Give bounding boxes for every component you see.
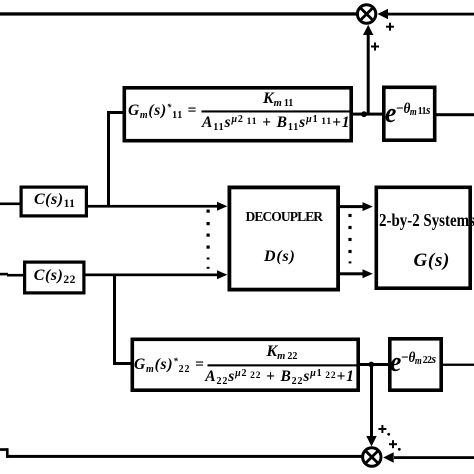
arrowhead into S2 right xyxy=(383,452,394,462)
wire branch vertical to Gm22 xyxy=(113,274,116,365)
arrowhead into decoupler input 2 xyxy=(217,270,227,279)
block C11 box xyxy=(21,187,86,216)
label C11 text xyxy=(34,192,75,208)
plus label S1 right input xyxy=(386,23,394,31)
wire input to C11 xyxy=(0,203,20,206)
plus label S2 right input xyxy=(389,440,397,448)
block G box (2-by-2 systems) xyxy=(376,187,470,288)
wire Gm11 to e11 xyxy=(353,113,382,116)
junction dot node top xyxy=(361,111,367,117)
summing junction S1 (top) xyxy=(357,5,375,23)
label Gm11 numerator xyxy=(263,91,293,107)
dotted line between decoupler outputs xyxy=(348,214,351,264)
wire top feedback line xyxy=(0,12,357,15)
plus label S1 bottom input xyxy=(371,43,379,51)
wire C11 to decoupler xyxy=(88,205,218,208)
wire bottom feedback line xyxy=(0,448,363,458)
arrowhead into decoupler input 1 xyxy=(217,202,227,211)
block e11 box xyxy=(384,87,435,140)
label Gm22 denominator xyxy=(205,369,354,385)
label Gm22 left part xyxy=(134,357,205,373)
junction dot node bottom xyxy=(368,362,374,368)
label Gm11 denominator xyxy=(202,115,350,131)
fraction bar Gm22 xyxy=(208,364,357,366)
label decoupler title xyxy=(246,210,323,224)
summing junction S2 (bottom) xyxy=(363,448,381,466)
label Gm11 left part xyxy=(128,103,197,119)
block C22 box xyxy=(25,262,84,293)
dotted line between controller outputs xyxy=(207,210,210,269)
wire vertical into S2 from model output xyxy=(370,365,373,439)
wire decoupler to G output 1 xyxy=(339,205,365,208)
wire vertical into S1 from model output xyxy=(367,29,370,114)
fraction bar Gm11 xyxy=(202,110,351,112)
plus label S2 top input xyxy=(378,425,386,433)
label e22 formula xyxy=(390,348,436,377)
wire stub into Gm11 xyxy=(107,111,123,114)
arrowhead into G input 2 xyxy=(363,269,373,278)
label decoupler D(s) xyxy=(264,249,296,265)
wire S2 right input xyxy=(394,456,474,459)
wire top right input xyxy=(385,13,474,16)
wire C22 to decoupler xyxy=(86,274,218,277)
label G G(s) xyxy=(414,251,451,270)
arrowhead into G input 1 xyxy=(363,202,373,211)
arrowhead into S1 right xyxy=(378,9,389,19)
wire decoupler to G output 2 xyxy=(339,272,365,275)
arrowhead into S1 bottom xyxy=(363,25,373,35)
block Gm11 box xyxy=(124,88,351,141)
block decoupler box xyxy=(229,187,338,289)
wire e11 output to right edge xyxy=(437,113,474,116)
wire input to C22 xyxy=(0,273,23,277)
label e11 formula xyxy=(385,99,430,128)
wire stub into Gm22 xyxy=(113,362,131,365)
label G title xyxy=(379,211,474,229)
block Gm22 box xyxy=(132,339,358,390)
dot after plus S2 top xyxy=(387,433,390,436)
wire e22 output to right edge xyxy=(443,364,474,366)
wire Gm22 to e22 xyxy=(360,363,388,366)
label C22 text xyxy=(34,268,76,284)
label Gm22 numerator xyxy=(267,344,298,360)
dot after plus S2 right xyxy=(398,448,401,451)
arrowhead into S2 top xyxy=(366,436,376,447)
wire branch vertical to Gm11 xyxy=(107,111,110,207)
block e22 box xyxy=(390,339,441,390)
